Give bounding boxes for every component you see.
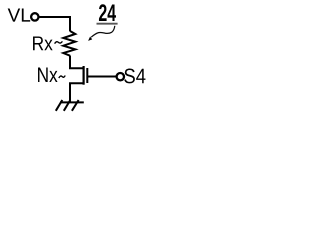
terminal circle VL [31, 13, 38, 20]
ground hatch slash 1 [56, 100, 63, 111]
wire from VL terminal to resistor top [39, 17, 70, 31]
transistor Nx channel bar [82, 66, 84, 85]
curved leader arrow from 24 [91, 26, 115, 37]
ground hatch slash 3 [72, 100, 79, 111]
gate wire to S4 terminal [88, 76, 117, 78]
terminal circle S4 [117, 73, 124, 80]
ground bar [60, 101, 84, 103]
node S4 label [124, 69, 145, 84]
resistor label Rx~ [33, 36, 53, 50]
transistor source arm and wire to ground [70, 83, 84, 101]
transistor gate bar [86, 68, 88, 83]
wire resistor bottom to transistor drain [70, 56, 84, 69]
ground hatch slash 2 [64, 100, 71, 111]
arrowhead of leader arrow [88, 37, 92, 41]
transistor label Nx~ [38, 68, 58, 82]
underline of 24 [97, 23, 118, 25]
node VL label [8, 9, 31, 22]
reference numeral 24 [99, 4, 116, 21]
resistor Rx zigzag [63, 31, 75, 56]
